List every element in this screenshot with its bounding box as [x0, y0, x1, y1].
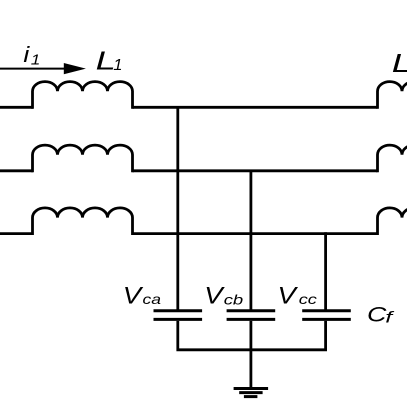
ground	[234, 389, 269, 397]
label i1	[23, 43, 40, 68]
inductor L2 phase B (partial at right edge)	[378, 145, 407, 172]
svg-text:1: 1	[113, 56, 122, 73]
inductor L1 phase C	[33, 208, 133, 235]
svg-text:cb: cb	[224, 292, 243, 307]
svg-text:cc: cc	[299, 292, 317, 308]
wire bottom bus joining capacitors	[178, 321, 326, 350]
wire phase C left stub	[0, 232, 33, 235]
wire phase C to right	[133, 232, 378, 235]
svg-text:f: f	[385, 309, 395, 327]
inductor L1 phase B	[33, 145, 133, 172]
svg-text:L: L	[392, 49, 407, 77]
svg-text:1: 1	[31, 52, 41, 69]
label Vcb	[204, 283, 243, 309]
label L2 (cut off at right edge)	[392, 49, 407, 77]
current arrow i1	[0, 63, 86, 74]
svg-text:i: i	[23, 43, 30, 67]
wire vertical from phase C to capacitor Vcc	[324, 232, 327, 309]
inductor L2 phase A (partial at right edge)	[378, 82, 407, 109]
svg-text:V: V	[278, 283, 299, 309]
capacitor Vca	[154, 311, 203, 320]
wire phase B left stub	[0, 169, 33, 172]
wire phase A left stub	[0, 106, 33, 109]
wire vertical from phase B to capacitor Vcb	[249, 170, 252, 310]
wire vertical from phase A to capacitor Vca	[176, 106, 179, 310]
inductor L1 phase A	[33, 82, 133, 109]
svg-text:C: C	[367, 303, 387, 327]
wire capacitor Vcb to ground stem	[249, 321, 252, 388]
wire phase A to right	[133, 106, 378, 109]
wire phase B to right	[133, 169, 378, 172]
capacitor Vcc (Cf)	[302, 311, 351, 320]
capacitor Vcb	[227, 311, 276, 320]
label Cf	[367, 303, 395, 327]
label Vcc	[278, 283, 317, 309]
label L1	[96, 47, 123, 75]
svg-text:V: V	[123, 283, 144, 309]
label Vca	[123, 283, 161, 309]
inductor L2 phase C (partial at right edge)	[378, 208, 407, 235]
svg-text:V: V	[204, 283, 225, 309]
svg-text:ca: ca	[143, 293, 162, 308]
